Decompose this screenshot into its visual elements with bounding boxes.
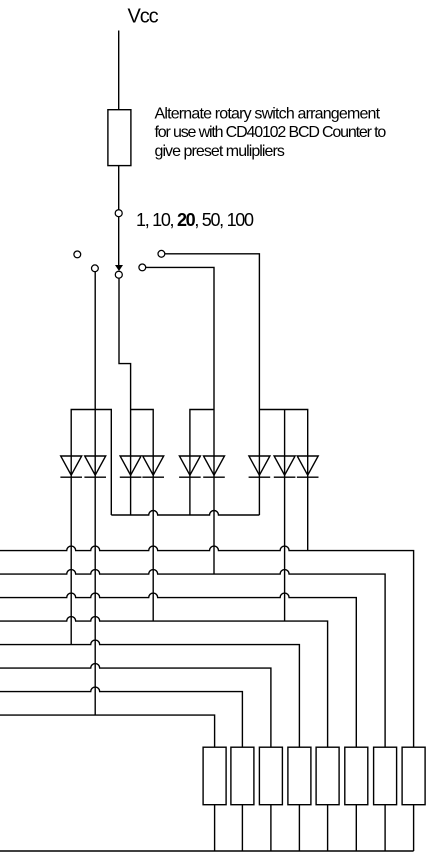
wire resistor R4 bottom bbox=[298, 805, 300, 851]
bus line 5 from counter with elbow down to resistor bbox=[0, 640, 299, 747]
svg-text:Alternate rotary switch arrang: Alternate rotary switch arrangement bbox=[155, 106, 381, 123]
wire diode D1 cathode down bbox=[70, 456, 72, 645]
anode bar D drop to diode D8 bbox=[284, 410, 286, 457]
diode D1 bbox=[61, 456, 82, 475]
wire diode D4 cathode down bbox=[152, 456, 154, 621]
resistor R3 bbox=[259, 747, 282, 805]
anode bar C (diodes D5, D6) bbox=[190, 410, 214, 457]
mid rail wire (bar A tap to D3, D5, D7 cathodes) with hops bbox=[111, 511, 259, 516]
diode D2 bbox=[85, 456, 106, 475]
anode bar A (diode D1, tap to mid rail) bbox=[71, 410, 111, 516]
switch contact circle position 10 bbox=[92, 265, 99, 272]
diode D3 bbox=[120, 456, 141, 475]
resistor R6 bbox=[345, 747, 368, 805]
diode D8 bbox=[274, 456, 295, 475]
svg-text:1, 10, 20, 50, 100: 1, 10, 20, 50, 100 bbox=[136, 210, 254, 230]
bus line 6 from counter with elbow down to resistor bbox=[0, 664, 271, 748]
wire resistor R7 bottom bbox=[384, 805, 386, 851]
bus line 1 from counter with elbow down to resistor bbox=[0, 546, 414, 747]
bus line 8 from counter with elbow down to resistor bbox=[0, 715, 215, 747]
diode D5 bbox=[179, 456, 200, 475]
bus line 4 from counter with elbow down to resistor bbox=[0, 617, 328, 748]
wire from wiper contact down with jog to diode bar B bbox=[119, 278, 131, 456]
resistor R1 bbox=[203, 747, 226, 805]
switch contact circle position 50 bbox=[139, 264, 146, 271]
wire diode D9 cathode down bbox=[307, 456, 309, 551]
anode bar D (diodes D7, D8, D9) bbox=[259, 410, 307, 457]
bus line 3 from counter with elbow down to resistor bbox=[0, 593, 356, 747]
wiper arrowhead bbox=[115, 265, 123, 271]
resistor R7 bbox=[374, 747, 397, 805]
wire diode D7 cathode down bbox=[258, 456, 260, 515]
wire switch wiper bbox=[118, 217, 120, 267]
wire diode D6 cathode down bbox=[213, 456, 215, 574]
wire resistor R6 bottom bbox=[355, 805, 357, 851]
diode D7 bbox=[249, 456, 270, 475]
svg-text:give preset mulipliers: give preset mulipliers bbox=[155, 143, 285, 160]
resistor R2 bbox=[231, 747, 254, 805]
svg-text:for use with CD40102 BCD Count: for use with CD40102 BCD Counter to bbox=[155, 124, 387, 141]
anode bar B (diodes D3, D4) bbox=[131, 410, 154, 457]
wire position 10 contact down to diode D2 bbox=[94, 271, 96, 456]
wire position 100 contact right and down to diode D7 bbox=[165, 254, 260, 456]
switch contact circle position 100 bbox=[158, 250, 165, 257]
resistor R5 bbox=[316, 747, 339, 805]
wire diode D2 cathode down bbox=[94, 456, 96, 715]
diode D9 bbox=[297, 456, 318, 475]
diode D4 bbox=[143, 456, 164, 475]
wire resistor R1 bottom bbox=[214, 805, 216, 851]
wire resistor R3 bottom bbox=[270, 805, 272, 851]
svg-text:Vcc: Vcc bbox=[128, 6, 159, 28]
resistor R8 bbox=[402, 747, 425, 805]
switch common contact circle bbox=[115, 210, 122, 217]
wire Vcc to resistor R0 bbox=[118, 31, 120, 110]
bottom common rail bbox=[0, 850, 414, 852]
wire resistor R8 bottom bbox=[413, 805, 415, 851]
resistor R4 bbox=[288, 747, 311, 805]
bus line 7 from counter with elbow down to resistor bbox=[0, 687, 242, 747]
wire diode D8 cathode down bbox=[284, 456, 286, 621]
wire resistor R5 bottom bbox=[327, 805, 329, 851]
bus line 2 from counter with elbow down to resistor bbox=[0, 570, 385, 748]
resistor R0 bbox=[108, 110, 131, 166]
switch wiper contact circle (position 20) bbox=[115, 271, 122, 278]
wire diode D5 cathode down bbox=[189, 456, 191, 515]
wire resistor R2 bottom bbox=[241, 805, 243, 851]
wire diode D3 cathode down bbox=[130, 456, 132, 515]
switch contact circle position 1 (unconnected) bbox=[74, 251, 81, 258]
wire resistor R0 to switch common contact bbox=[118, 166, 120, 213]
wire position 50 contact right and down to diode D6 bbox=[146, 267, 215, 456]
diode D6 bbox=[204, 456, 225, 475]
